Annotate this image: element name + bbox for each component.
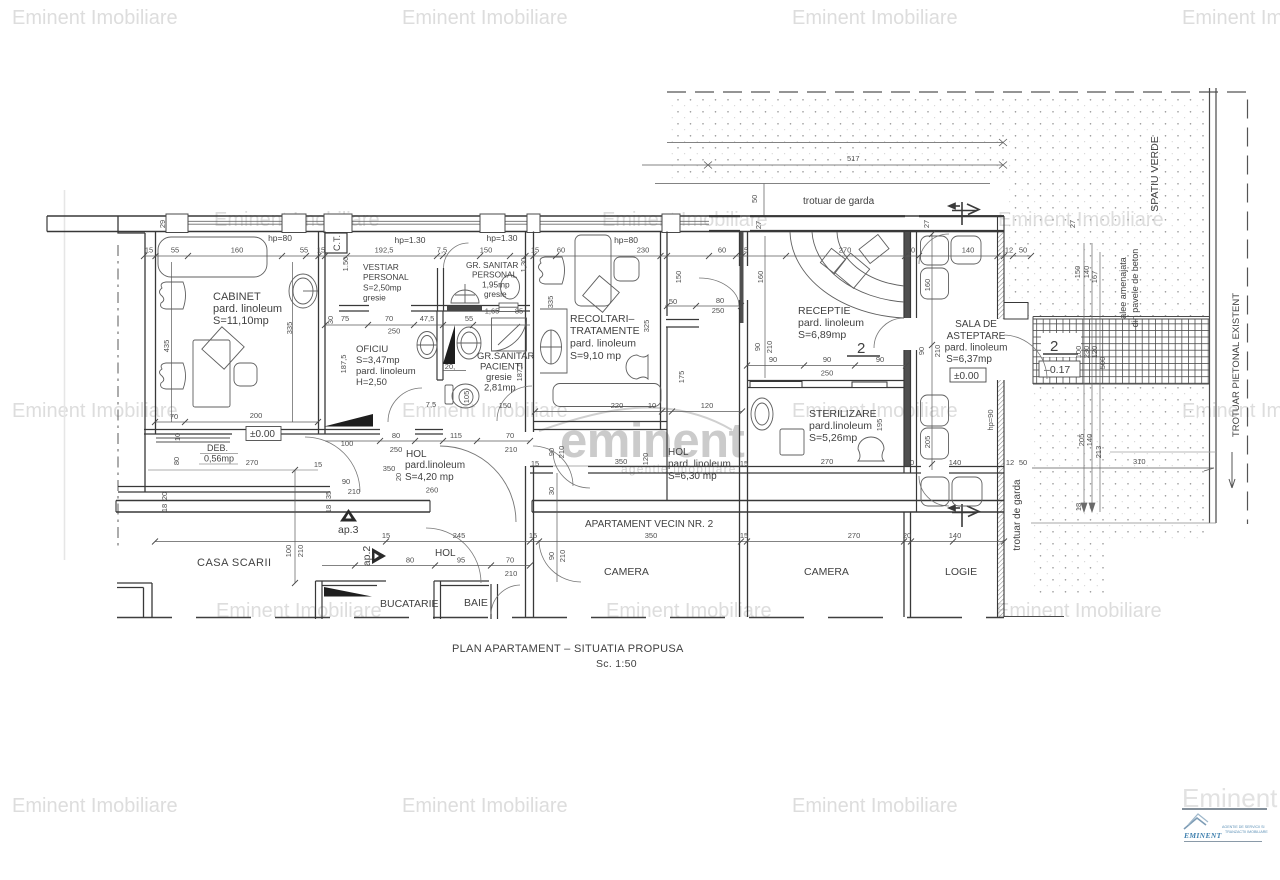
hp labels: [268, 233, 638, 245]
watermark tile row 4: [216, 600, 1162, 622]
svg-text:pard.linoleum: pard.linoleum: [809, 420, 872, 432]
logo separator line top: [1182, 808, 1267, 810]
svg-text:15: 15: [740, 459, 748, 468]
camera1 door arc: [553, 451, 590, 488]
sala level box: [950, 368, 986, 382]
vecin dividing wall band: [116, 501, 1004, 513]
alee grid band: [1033, 319, 1209, 384]
svg-text:GR.SANITAR: GR.SANITAR: [477, 351, 534, 362]
pacienti small dims: [426, 307, 523, 411]
svg-text:325: 325: [642, 320, 651, 333]
vecin dim line: [155, 541, 1004, 543]
ap.2 marker triangle: [372, 548, 386, 564]
svg-text:30: 30: [547, 487, 556, 495]
svg-text:0,56mp: 0,56mp: [204, 454, 234, 464]
svg-text:80: 80: [716, 296, 724, 305]
svg-text:335: 335: [285, 322, 294, 335]
svg-text:1,65: 1,65: [485, 307, 500, 316]
svg-text:Eminent Imobiliare: Eminent Imobiliare: [602, 209, 768, 231]
north arrow bottom: [949, 504, 979, 527]
vestiar oficiu dim row: [325, 324, 530, 326]
sala seats bottom: [921, 395, 949, 426]
sala corner arcs: [919, 234, 949, 264]
receptie-sala door arc: [874, 318, 904, 348]
recoltari sink niche: [540, 309, 567, 373]
svg-text:trotuar de garda: trotuar de garda: [1012, 479, 1023, 551]
pacienti door arc: [497, 386, 532, 421]
pacienti toilet: [452, 384, 479, 408]
recoltari stool: [626, 355, 648, 379]
baie door arc: [491, 585, 520, 614]
svg-text:PACIENTI: PACIENTI: [480, 362, 523, 373]
cabinet desk chair: [234, 363, 257, 386]
sala bottom dim row: [906, 458, 1027, 467]
svg-text:50: 50: [669, 297, 677, 306]
svg-text:175: 175: [677, 371, 686, 384]
svg-text:20: 20: [903, 531, 911, 540]
svg-text:210: 210: [505, 569, 518, 578]
sterilizare stool: [858, 437, 884, 461]
vertical dim line cabinet right: [292, 262, 294, 422]
svg-text:210: 210: [933, 345, 942, 358]
svg-text:435: 435: [162, 340, 171, 353]
svg-text:150: 150: [499, 401, 512, 410]
oficiu/pacienti divider: [437, 311, 443, 380]
svg-text:GR. SANITAR: GR. SANITAR: [466, 260, 518, 270]
svg-text:Eminent Imobiliare: Eminent Imobiliare: [12, 400, 178, 422]
bottom line right of building: [1004, 616, 1064, 618]
receptie left wall pair: [740, 232, 748, 618]
top dimension numbers: [145, 246, 1027, 255]
svg-text:75: 75: [341, 314, 349, 323]
vestibule dim line: [665, 305, 742, 307]
svg-text:195: 195: [875, 419, 884, 432]
bucatarie/baie wall: [434, 581, 489, 619]
svg-text:1,30: 1,30: [519, 258, 528, 273]
svg-text:1.50: 1.50: [341, 257, 350, 272]
svg-text:85: 85: [515, 307, 523, 316]
svg-text:517: 517: [847, 154, 860, 163]
svg-text:Eminent Imobiliare: Eminent Imobiliare: [792, 795, 958, 817]
svg-text:55: 55: [465, 314, 473, 323]
svg-text:210: 210: [765, 341, 774, 354]
pacienti sink: [457, 327, 481, 359]
room label SALA DE ASTEPTARE: [945, 319, 1008, 365]
svg-text:15: 15: [382, 531, 390, 540]
dark wall fill under gr.sanitar: [447, 306, 482, 312]
oficiu / hol wall: [144, 430, 443, 435]
svg-text:HOL: HOL: [668, 447, 689, 458]
svg-text:160: 160: [231, 246, 244, 255]
recoltari sink: [541, 330, 562, 364]
svg-text:ap.3: ap.3: [338, 524, 359, 536]
svg-text:ap.2: ap.2: [361, 546, 373, 567]
vecin hol arc 2: [539, 540, 581, 582]
corridor dims: [530, 465, 742, 467]
svg-text:30: 30: [326, 316, 335, 324]
wall pair lower left of corridor: [526, 466, 534, 617]
watermark tile row 5: [12, 783, 1280, 817]
baie right wall: [491, 584, 498, 619]
C.T. box: [325, 233, 347, 253]
svg-text:AGENTIE DE SERVICII SI: AGENTIE DE SERVICII SI: [1222, 825, 1264, 829]
svg-text:Eminent Imobiliare: Eminent Imobiliare: [606, 600, 772, 622]
room label GR.SANITAR PACIENTI: [477, 351, 534, 394]
vestibule entry door arc: [699, 278, 739, 306]
svg-text:CAMERA: CAMERA: [804, 566, 849, 578]
room label RECOLTARI-TRATAMENTE: [570, 313, 640, 362]
svg-text:Eminent Imobiliare: Eminent Imobiliare: [12, 7, 178, 29]
svg-text:TRATAMENTE: TRATAMENTE: [570, 325, 640, 337]
svg-text:PLAN APARTAMENT – SITUATIA: PLAN APARTAMENT – SITUATIA PROPUSA: [452, 643, 684, 655]
svg-text:230: 230: [637, 246, 650, 255]
deb closet shelf lines: [156, 438, 230, 442]
vertical dim line cabinet left: [171, 262, 173, 422]
receptie item on counter: [859, 235, 889, 264]
stair enclosure wall: [117, 583, 152, 618]
svg-text:SPATIU VERDE: SPATIU VERDE: [1149, 136, 1161, 211]
svg-text:pard. linoleum: pard. linoleum: [213, 303, 282, 315]
facade left end cap: [46, 216, 48, 232]
room label STERILIZARE: [809, 408, 877, 444]
dim line 517 upper: [667, 139, 1007, 146]
svg-text:15: 15: [529, 531, 537, 540]
svg-text:245: 245: [453, 531, 466, 540]
svg-text:350: 350: [645, 531, 658, 540]
svg-text:2: 2: [1050, 338, 1058, 355]
svg-text:Eminent Imobiliare: Eminent Imobiliare: [402, 795, 568, 817]
svg-text:BUCATARIE: BUCATARIE: [380, 598, 439, 610]
svg-text:2,81mp: 2,81mp: [484, 383, 516, 394]
svg-text:210: 210: [296, 545, 305, 558]
recoltari desk: [575, 235, 611, 306]
svg-text:hp=90: hp=90: [986, 409, 995, 430]
logo underline: [1184, 841, 1262, 843]
svg-text:hp=1.30: hp=1.30: [395, 235, 426, 245]
svg-text:200: 200: [250, 411, 263, 420]
watermark tile row 3: [12, 400, 1280, 422]
sala seats top: [921, 236, 949, 265]
oficiu door arc: [388, 388, 422, 422]
svg-text:CAMERA: CAMERA: [604, 566, 649, 578]
svg-text:trotuar de garda: trotuar de garda: [803, 196, 875, 207]
facade pier blocks: [166, 214, 680, 233]
svg-text:Eminent Imobiliare: Eminent Imobiliare: [12, 795, 178, 817]
svg-text:±0.00: ±0.00: [250, 429, 275, 440]
receptie vertical dim: [764, 236, 766, 378]
svg-text:205: 205: [923, 436, 932, 449]
svg-text:SALA DE: SALA DE: [955, 319, 997, 330]
svg-text:EMINENT: EMINENT: [1183, 831, 1222, 840]
sterilizare cabinet: [780, 429, 804, 455]
scan artifact line left: [64, 190, 66, 560]
bucatarie left wall: [316, 581, 387, 619]
receptie dim row: [747, 365, 906, 367]
svg-text:gresie: gresie: [486, 372, 512, 383]
svg-text:18: 18: [1074, 503, 1083, 511]
corridor door arc: [533, 446, 573, 486]
big center watermark eminent logo: [539, 407, 745, 476]
svg-text:20: 20: [907, 246, 915, 255]
svg-text:LOGIE: LOGIE: [945, 566, 977, 578]
svg-text:100: 100: [284, 545, 293, 558]
vecin hol arc 1: [426, 528, 481, 583]
svg-text:Eminent Imobiliare: Eminent Imobiliare: [216, 600, 382, 622]
svg-text:95: 95: [457, 556, 465, 565]
svg-text:140: 140: [949, 458, 962, 467]
svg-text:90: 90: [342, 477, 350, 486]
svg-text:pard.linoleum: pard.linoleum: [405, 460, 465, 471]
svg-text:Eminent Imobiliare: Eminent Imobiliare: [996, 600, 1162, 622]
wall gr area / recoltari pair: [526, 232, 534, 433]
svg-text:20,: 20,: [445, 362, 455, 371]
svg-text:50: 50: [1019, 458, 1027, 467]
svg-text:210: 210: [557, 446, 566, 459]
svg-text:pard. linoleum: pard. linoleum: [356, 366, 416, 377]
cabinet chair 2: [160, 363, 186, 389]
recoltari exam bed: [553, 384, 661, 407]
svg-text:12: 12: [1005, 246, 1013, 255]
receptie/sala wall pair: [904, 232, 917, 474]
svg-text:150: 150: [674, 271, 683, 284]
alee door arc: [1004, 335, 1047, 379]
svg-text:15: 15: [740, 531, 748, 540]
svg-text:pard. linoleum: pard. linoleum: [570, 338, 636, 350]
deb door arc: [305, 437, 360, 492]
svg-text:S=4,20 mp: S=4,20 mp: [405, 472, 454, 483]
room label GR SANITAR PERSONAL: [466, 260, 518, 299]
svg-text:10: 10: [173, 433, 182, 441]
svg-text:250: 250: [388, 327, 401, 336]
svg-text:192,5: 192,5: [375, 246, 394, 255]
svg-text:27: 27: [922, 220, 931, 228]
top facade outer line: [47, 215, 1004, 217]
bottom edge of dotted zone: [1031, 522, 1216, 524]
svg-text:213: 213: [1094, 446, 1103, 459]
svg-text:Sc. 1:50: Sc. 1:50: [596, 658, 637, 670]
camera2/logie divider lower: [904, 512, 911, 617]
svg-text:150: 150: [480, 246, 493, 255]
svg-text:90: 90: [917, 347, 926, 355]
svg-text:7,5: 7,5: [437, 246, 447, 255]
logo small blue text: [1222, 825, 1268, 834]
svg-text:HOL: HOL: [435, 548, 456, 559]
svg-text:18: 18: [160, 504, 169, 512]
receptie/sala wall dark fill: [904, 232, 911, 318]
svg-text:47,5: 47,5: [420, 314, 435, 323]
faint crossing line right: [1110, 451, 1216, 453]
svg-text:90: 90: [547, 552, 556, 560]
svg-text:250: 250: [821, 369, 834, 378]
gr sanitar personal sink: [501, 275, 520, 299]
vestibule right wall dark fill: [740, 232, 744, 323]
left exterior wall solid top: [118, 216, 145, 233]
recoltari chair top left: [539, 257, 565, 284]
svg-text:PERSONAL: PERSONAL: [363, 272, 409, 282]
svg-text:220: 220: [611, 401, 624, 410]
green space dotted tongue bottom: [1031, 541, 1105, 597]
svg-text:S=5,26mp: S=5,26mp: [809, 432, 857, 444]
svg-text:120: 120: [641, 453, 650, 466]
svg-text:270: 270: [839, 246, 852, 255]
svg-text:500: 500: [1098, 357, 1107, 370]
svg-text:70: 70: [506, 556, 514, 565]
svg-text:50: 50: [1019, 246, 1027, 255]
svg-text:15: 15: [317, 246, 325, 255]
svg-text:15: 15: [740, 246, 748, 255]
svg-text:S=6,37mp: S=6,37mp: [946, 354, 992, 365]
svg-text:140: 140: [962, 246, 975, 255]
right exterior wall hatched: [998, 232, 1005, 319]
svg-text:15: 15: [531, 459, 539, 468]
svg-text:H=2,50: H=2,50: [356, 377, 387, 388]
svg-text:120: 120: [701, 401, 714, 410]
hol top dim row: [325, 440, 530, 442]
cabinet bed: [158, 237, 267, 277]
svg-text:Eminent Imobiliare: Eminent Imobiliare: [1182, 7, 1280, 29]
svg-text:50: 50: [750, 195, 759, 203]
svg-text:335: 335: [546, 296, 555, 309]
svg-text:270: 270: [821, 457, 834, 466]
hol2 left wall lower: [666, 327, 668, 500]
logie seats: [952, 477, 982, 506]
left wall inner pair: [144, 233, 146, 492]
svg-text:187,5: 187,5: [339, 355, 348, 374]
svg-text:60: 60: [557, 246, 565, 255]
svg-text:55: 55: [171, 246, 179, 255]
svg-text:12: 12: [1006, 458, 1014, 467]
svg-text:140: 140: [949, 531, 962, 540]
oficiu sink: [417, 332, 437, 359]
svg-text:S=6,89mp: S=6,89mp: [798, 329, 846, 341]
logie front wall pieces: [916, 473, 918, 512]
cabinet desk: [193, 340, 230, 407]
svg-text:27: 27: [754, 221, 763, 229]
svg-text:90: 90: [547, 448, 556, 456]
svg-text:S=6,30 mp: S=6,30 mp: [668, 471, 717, 482]
black wedge bucatarie: [324, 587, 372, 597]
svg-text:210: 210: [505, 445, 518, 454]
vestibule bottom wall: [666, 320, 699, 328]
dim 310 line: [1032, 467, 1214, 469]
black wedge oficiu bottom: [324, 414, 373, 427]
svg-text:hp=1.30: hp=1.30: [487, 233, 518, 243]
recoltari dims: [535, 411, 742, 413]
svg-text:ASTEPTARE: ASTEPTARE: [947, 331, 1006, 342]
svg-text:S=2,50mp: S=2,50mp: [363, 283, 402, 293]
svg-text:APARTAMENT VECIN NR. 2: APARTAMENT VECIN NR. 2: [585, 519, 714, 530]
svg-text:CABINET: CABINET: [213, 291, 261, 303]
svg-text:pard. linoleum: pard. linoleum: [945, 343, 1008, 354]
svg-text:BAIE: BAIE: [464, 597, 488, 609]
watermark tile row 2: [214, 209, 1164, 231]
main top dimension line: [144, 255, 1031, 257]
svg-text:310: 310: [1133, 457, 1146, 466]
svg-text:STERILIZARE: STERILIZARE: [809, 408, 877, 420]
svg-text:DEB.: DEB.: [207, 443, 228, 453]
svg-text:100: 100: [341, 439, 354, 448]
svg-text:90: 90: [753, 343, 762, 351]
svg-text:pard. linoleum: pard. linoleum: [798, 317, 864, 329]
casa scarii vertical dim: [294, 470, 296, 583]
svg-text:80: 80: [406, 556, 414, 565]
kerb double line right: [1209, 88, 1211, 523]
entry walkway lines: [763, 184, 765, 217]
step block at alee door: [1004, 303, 1028, 320]
svg-text:90: 90: [769, 355, 777, 364]
sterilizare sink: [751, 398, 773, 430]
svg-text:120: 120: [1090, 346, 1099, 359]
logo roof: [1184, 818, 1206, 829]
room label VESTIAR PERSONAL: [363, 262, 409, 303]
svg-text:60: 60: [718, 246, 726, 255]
dim line 517 with label: [642, 162, 1007, 169]
green space dotted area top: [667, 96, 1208, 182]
svg-text:35: 35: [324, 491, 333, 499]
dim line lower trotuar: [655, 183, 990, 185]
svg-text:15: 15: [314, 460, 322, 469]
room label CABINET: [213, 291, 282, 327]
svg-text:Eminent Imobiliare: Eminent Imobiliare: [792, 7, 958, 29]
gr sanitar personal toilet: [451, 290, 479, 303]
vecin hol lower dims: [322, 565, 530, 567]
svg-text:350: 350: [615, 457, 628, 466]
svg-text:VESTIAR: VESTIAR: [363, 262, 399, 272]
cabinet wall oval: [289, 274, 317, 308]
svg-text:TROTUAR PIETONAL EXISTENT: TROTUAR PIETONAL EXISTENT: [1231, 293, 1242, 437]
svg-text:din pavele de beton: din pavele de beton: [1130, 249, 1140, 328]
svg-text:OFICIU: OFICIU: [356, 344, 388, 355]
svg-text:–0.17: –0.17: [1044, 364, 1070, 376]
vecin camera vertical dim: [556, 473, 558, 582]
bottom boundary dashed: [117, 617, 1004, 619]
svg-text:210: 210: [348, 487, 361, 496]
recoltari right wall pair: [661, 232, 668, 431]
svg-text:70: 70: [170, 412, 178, 421]
svg-text:210: 210: [558, 550, 567, 563]
svg-text:15: 15: [145, 246, 153, 255]
svg-text:gresie: gresie: [363, 293, 386, 303]
apartment bottom wall left section: [118, 487, 330, 493]
svg-text:2: 2: [857, 340, 865, 357]
alee vertical dim lines: [1081, 243, 1100, 512]
svg-text:Eminent Imobiliare: Eminent Imobiliare: [402, 7, 568, 29]
svg-text:160: 160: [756, 271, 765, 284]
cabinet right wall pair: [318, 232, 320, 435]
svg-text:160: 160: [923, 279, 932, 292]
svg-text:CASA SCARII: CASA SCARII: [197, 557, 272, 569]
exit marker 2 at alee: [1041, 333, 1081, 357]
svg-text:20: 20: [906, 458, 914, 467]
wall under vestiar/gr.sanitar: [339, 306, 530, 312]
svg-text:140: 140: [1085, 434, 1094, 447]
recoltari bottom wall: [534, 422, 668, 430]
bucatarie top wall lower line: [322, 585, 377, 587]
black wedge on pacienti wall: [443, 325, 455, 364]
svg-text:±0.00: ±0.00: [954, 371, 979, 382]
svg-text:S=9,10 mp: S=9,10 mp: [570, 350, 621, 362]
north arrow top: [949, 202, 979, 225]
svg-text:7,5: 7,5: [426, 400, 436, 409]
watermark tile row 1: [12, 7, 1280, 29]
svg-text:70: 70: [385, 314, 393, 323]
svg-text:10: 10: [648, 401, 656, 410]
cabinet chair 1: [160, 282, 186, 309]
sala vertical dim: [931, 234, 933, 470]
level -0.17 box: [1039, 361, 1080, 377]
svg-text:115: 115: [450, 431, 462, 440]
svg-text:15: 15: [531, 246, 539, 255]
